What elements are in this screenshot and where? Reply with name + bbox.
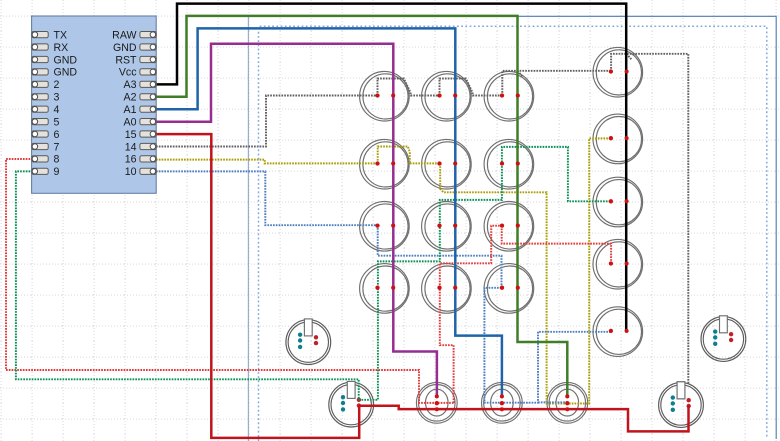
switch S12 right column row3 [593,177,643,227]
switch S14 row4 col2 [422,264,472,314]
wire red 15 to encoder ENC2 [156,134,359,438]
switch S11 row3 col3 [484,202,534,252]
node S9 pins [375,223,395,227]
U1 left pin RX [32,44,48,50]
wire red ENC2 to bottom switches to ENC4 [359,406,688,432]
svg-text:15: 15 [125,129,137,141]
switch S16 right column row4 [593,239,643,289]
U1 left pin GND [32,56,48,62]
U1 right pin 15 [140,131,156,137]
node S3 pins [500,93,520,97]
wire ratsnest red S11 to S16 [502,226,611,264]
svg-text:10: 10 [125,166,137,178]
switch S9 row3 col1 [360,202,410,252]
node right column row4 pins [609,261,629,265]
wire ratsnest green pin9 down left side to encoder ENC2 [16,171,359,399]
switch S1 row1 col1 [360,71,410,121]
U1 left pin 2 [32,81,48,87]
svg-text:A1: A1 [124,104,137,116]
svg-text:RX: RX [54,42,69,54]
switch S6 row2 col2 [422,139,472,189]
switch S3 row1 col3 [484,71,534,121]
svg-text:TX: TX [54,29,68,41]
U1 left pin GND [32,69,48,75]
node SB3 pins [565,394,569,411]
svg-text:2: 2 [54,79,60,91]
node S7 pins [500,161,520,165]
IC U1 Arduino Pro Micro body [32,16,157,193]
U1 left pin 4 [32,106,48,112]
node S10 pins [437,223,457,227]
wire blue A1 to SB2 [156,28,502,396]
U1 right pin 14 [140,143,156,149]
node right column row5 pins [609,329,629,333]
node S6 pins [437,161,457,165]
rotary encoder ENC4 notch [677,382,685,399]
U1 right pin RST [140,56,156,62]
switch S5 row2 col1 [360,139,410,189]
U1 left pin 9 [32,168,48,174]
rotary encoder ENC4 [659,382,704,428]
node right column row1 pins [609,69,629,73]
wire ratsnest green ENC2 up through S13,S10,S7 to S12 [359,147,611,400]
wire ratsnest gray pin14 to S1 [156,96,378,147]
node S15 pins [500,286,520,290]
svg-text:6: 6 [54,129,60,141]
svg-text:GND: GND [54,67,78,79]
U1 left pin 6 [32,131,48,137]
node S14 pins [437,286,457,290]
wire ratsnest red SB1 up to S14 and S11 [440,226,502,403]
wire thin net line vertical [247,17,249,441]
node SB1 pins [435,394,439,411]
svg-text:A3: A3 [124,79,137,91]
wire ratsnest gray S3 up to S4 [502,71,611,96]
node S11 pins [500,223,520,227]
node S13 pins [375,286,395,290]
wire ratsnest blue S9 to S11/S15 [378,225,502,288]
svg-text:GND: GND [113,42,137,54]
wire ratsnest gray hook diagonal S4 [627,54,632,60]
wire ratsnest gray hook over S1 to S2 [378,79,440,96]
wire ratsnest blue S15 to SB2 to S20 [484,288,611,403]
svg-text:A0: A0 [124,116,137,128]
svg-text:Vcc: Vcc [119,67,137,79]
switch S4 right column row1 [593,47,643,97]
switch S8 right column row2 [593,114,643,164]
node S1 pins [375,93,395,97]
wire purple A0 to SB1 [156,44,437,397]
svg-text:14: 14 [125,141,137,153]
U1 right pin 10 [140,168,156,174]
U1 right pin A2 [140,94,156,100]
wire green A2 to SB3 [156,16,567,397]
wire thin net line top/right [248,16,776,439]
rotary encoder ENC2 [329,381,374,427]
svg-text:9: 9 [54,166,60,178]
wire ratsnest yellow hook over S5 to S6 [378,147,440,164]
switch SB3 (bottom row) [547,382,588,423]
switch SB1 (bottom row) [416,382,457,423]
node right column row3 pins [609,199,629,203]
U1 right pin Vcc [140,69,156,75]
svg-text:5: 5 [54,116,60,128]
svg-text:GND: GND [54,54,78,66]
switch S15 row4 col3 [484,264,534,314]
svg-text:A2: A2 [124,92,137,104]
wire ratsnest red pin8 down left side to SB1 [6,159,454,403]
U1 right pin A0 [140,119,156,125]
U1 left pin TX [32,32,48,38]
U1 right pin A3 [140,81,156,87]
U1 left pin 3 [32,94,48,100]
wire ratsnest gray hook diagonal S3 [518,71,523,77]
switch S10 row3 col2 [422,202,472,252]
node right column row2 pins [609,136,629,140]
wire ratsnest blue outer loop [259,26,767,441]
switch SB2 (bottom row) [482,382,523,423]
node SB2 pins [500,394,504,411]
U1 right pin 16 [140,156,156,162]
wire ratsnest blue stub to SB3 [538,401,567,403]
node S2 pins [437,93,457,97]
wire ratsnest yellow pin16 to S5 [156,160,378,164]
U1 right pin GND [140,44,156,50]
U1 left pin 8 [32,156,48,162]
U1 left pin 7 [32,143,48,149]
U1 right pin RAW [140,32,156,38]
switch S7 row2 col3 [484,139,534,189]
switch S13 row4 col1 [360,264,410,314]
wire ratsnest yellow S6 down and across to SB3, up to S8 [440,138,611,403]
U1 left pin 5 [32,119,48,125]
svg-text:RST: RST [115,54,137,66]
wire ratsnest gray hook over S2 to S3 [440,79,503,96]
U1 right pin A1 [140,106,156,112]
svg-text:7: 7 [54,141,60,153]
node S5 pins [375,161,395,165]
wire ratsnest blue pin10 to S9 [156,171,378,225]
wire black A3 to S20 [156,4,626,331]
svg-text:RAW: RAW [112,29,136,41]
svg-text:16: 16 [125,154,137,166]
svg-text:4: 4 [54,104,60,116]
svg-text:3: 3 [54,92,60,104]
svg-text:8: 8 [54,154,60,166]
switch S2 row1 col2 [422,71,472,121]
rotary encoder ENC3 [701,316,746,362]
switch S20 right column row5 [593,307,643,357]
rotary encoder ENC1 [286,319,331,365]
wire ratsnest gray S4 to encoder ENC4 [611,54,688,384]
